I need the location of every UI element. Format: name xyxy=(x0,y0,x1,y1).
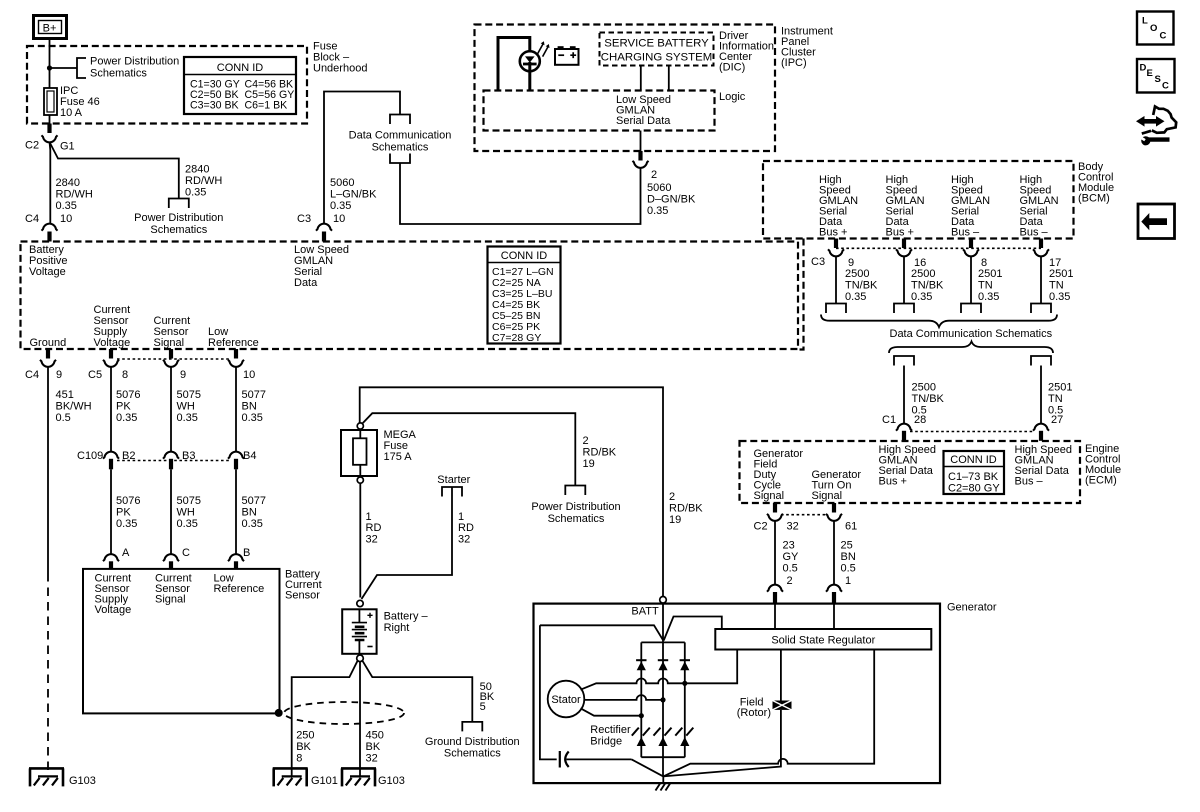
svg-text:BN: BN xyxy=(841,551,856,563)
svg-text:8: 8 xyxy=(122,369,128,381)
svg-text:Right: Right xyxy=(384,622,410,634)
wire 23 GY 0.5 xyxy=(774,520,776,585)
svg-text:L–GN/BK: L–GN/BK xyxy=(330,189,377,201)
fuse IPC Fuse 46 xyxy=(44,85,100,119)
svg-text:8: 8 xyxy=(296,753,302,765)
diode top col1 xyxy=(636,660,646,670)
svg-text:5075: 5075 xyxy=(177,495,201,507)
stator phase wire 1 (hops cols 1-2, joins col3, to regulator) xyxy=(581,650,738,690)
svg-text:RD: RD xyxy=(458,522,474,534)
label generator turn on signal xyxy=(812,469,862,502)
svg-text:5077: 5077 xyxy=(242,495,266,507)
svg-text:Voltage: Voltage xyxy=(95,604,132,616)
off-page pointer: power distribution schematics (right branch) xyxy=(169,199,189,209)
svg-text:32: 32 xyxy=(366,534,378,546)
wire 5077 BN 0.35 (upper) xyxy=(235,366,237,452)
svg-text:0.35: 0.35 xyxy=(978,291,999,303)
stator phase wire 2 (hops col1, joins col2) xyxy=(584,695,663,700)
svg-text:C2: C2 xyxy=(25,140,39,152)
label BCM high speed bus - (col 3) xyxy=(951,174,990,239)
wire field to ground node xyxy=(663,710,781,777)
svg-text:2: 2 xyxy=(583,435,589,447)
connector table CONN ID (battery positive harness) xyxy=(488,247,561,345)
connector BCM pin 9 xyxy=(834,239,838,249)
svg-text:TN/BK: TN/BK xyxy=(912,393,945,405)
svg-text:5076: 5076 xyxy=(116,495,140,507)
svg-text:5075: 5075 xyxy=(177,389,201,401)
svg-text:Reference: Reference xyxy=(214,583,265,595)
wire battery negative to G101 (250 BK) xyxy=(292,661,358,776)
node battery positive terminal xyxy=(357,600,363,606)
wire battery negative to G103 (450 BK) xyxy=(359,662,361,776)
off-page pointer col4 xyxy=(1031,304,1051,314)
svg-text:RD/BK: RD/BK xyxy=(669,503,703,515)
svg-text:2: 2 xyxy=(651,169,657,181)
svg-text:C6=1 BK: C6=1 BK xyxy=(245,100,288,112)
wire 5076 PK 0.35 (upper) xyxy=(110,366,112,452)
svg-text:Underhood: Underhood xyxy=(313,63,367,75)
component box: generator xyxy=(534,604,941,784)
wire 25 BN 0.5 xyxy=(833,520,835,585)
wire bridge bottom to ground node xyxy=(662,757,664,776)
svg-text:Logic: Logic xyxy=(719,91,746,103)
wire 1 RD 32 (starter branch) xyxy=(362,487,453,599)
svg-text:G103: G103 xyxy=(69,775,96,787)
svg-text:BATT: BATT xyxy=(631,606,659,618)
svg-text:TN: TN xyxy=(978,280,993,292)
svg-text:Reference: Reference xyxy=(208,337,259,349)
wire G1 branch right to power distribution xyxy=(50,143,179,199)
icon button back-arrow xyxy=(1138,204,1175,239)
ground G103 (left, 451 BK/WH) xyxy=(29,768,64,786)
svg-text:Data Communication Schematics: Data Communication Schematics xyxy=(890,328,1053,340)
svg-text:Bridge: Bridge xyxy=(590,736,622,748)
connector DIC pin 2 xyxy=(638,151,642,161)
label BCM high speed bus + (col 1) xyxy=(819,174,858,239)
off-page pointer 2500 to ECM xyxy=(894,356,914,366)
svg-text:BN: BN xyxy=(242,401,257,413)
fuse MEGA Fuse 175 A xyxy=(341,429,417,477)
svg-text:C3: C3 xyxy=(297,213,311,225)
svg-text:25: 25 xyxy=(841,540,853,552)
svg-text:TN/BK: TN/BK xyxy=(845,280,878,292)
wire 5060 D-GN/BK from pointer to DIC pin 2 xyxy=(400,163,641,224)
wire 1 RD 32 (mega fuse to battery) xyxy=(359,483,361,597)
wire 2500 TN/BK 0.5 xyxy=(903,366,905,425)
svg-text:(IPC): (IPC) xyxy=(781,57,807,69)
svg-text:B+: B+ xyxy=(43,23,57,35)
off-page pointer col1 xyxy=(826,304,846,314)
svg-text:Data Communication: Data Communication xyxy=(349,130,452,142)
svg-text:CONN ID: CONN ID xyxy=(501,250,548,262)
off-page pointer col3 xyxy=(961,304,981,314)
svg-text:Schematics: Schematics xyxy=(548,513,605,525)
module box: engine control module (ECM) xyxy=(740,441,1081,503)
battery telltale icon xyxy=(555,46,579,65)
svg-text:Schematics: Schematics xyxy=(150,224,207,236)
svg-text:19: 19 xyxy=(669,514,681,526)
svg-text:C: C xyxy=(1162,81,1169,92)
brace upper (gathers four buses) xyxy=(821,315,1057,328)
svg-text:C109: C109 xyxy=(77,450,103,462)
svg-text:10: 10 xyxy=(333,213,345,225)
wire 5060 L-GN/BK up and to data communication pointer xyxy=(324,92,400,225)
svg-text:(ECM): (ECM) xyxy=(1085,475,1117,487)
svg-text:RD/WH: RD/WH xyxy=(56,189,93,201)
svg-text:0.5: 0.5 xyxy=(783,563,798,575)
svg-text:0.35: 0.35 xyxy=(911,291,932,303)
svg-text:Signal: Signal xyxy=(812,490,843,502)
wire pin1 into regulator xyxy=(833,604,835,629)
connector C2 boundary dotted xyxy=(781,514,827,516)
svg-text:27: 27 xyxy=(1051,414,1063,426)
wire 5077 BN 0.35 (lower) xyxy=(235,469,237,554)
svg-text:Power Distribution: Power Distribution xyxy=(90,56,179,68)
svg-text:0.35: 0.35 xyxy=(242,518,263,530)
label generator field duty cycle signal xyxy=(754,448,804,502)
off-page pointer col2 xyxy=(894,304,914,314)
off-page pointer: ground distribution schematics xyxy=(462,722,482,732)
wire regulator to field xyxy=(780,650,782,701)
wire junction to fuse xyxy=(49,68,51,88)
capacitor (noise suppression) xyxy=(560,751,632,768)
connector C109 pin B4 xyxy=(228,452,244,459)
svg-text:L: L xyxy=(1142,16,1148,27)
wire capacitor to ground node xyxy=(632,759,664,776)
connector ECM C2 pin 61 xyxy=(832,503,836,513)
svg-text:C3=30 BK: C3=30 BK xyxy=(190,100,239,112)
wire pin2 into regulator xyxy=(774,604,776,629)
svg-text:2: 2 xyxy=(669,491,675,503)
svg-text:CHARGING SYSTEM: CHARGING SYSTEM xyxy=(601,52,712,64)
svg-text:9: 9 xyxy=(180,369,186,381)
svg-text:Battery –: Battery – xyxy=(384,611,429,623)
wire battery negative to ground distribution (50 BK) xyxy=(362,661,472,722)
wire logic to pin 2 xyxy=(640,131,642,152)
connector boundary dotted (top row) xyxy=(117,358,230,360)
svg-text:10: 10 xyxy=(60,213,72,225)
diode bottom col1 xyxy=(632,728,650,746)
svg-text:BK: BK xyxy=(296,741,311,753)
svg-text:Voltage: Voltage xyxy=(29,266,66,278)
connector C1 boundary dotted xyxy=(910,431,1033,433)
ground G101 (250 BK) xyxy=(273,768,308,786)
module box: logic xyxy=(484,91,715,131)
svg-text:A: A xyxy=(122,547,130,559)
svg-text:RD/WH: RD/WH xyxy=(185,175,222,187)
svg-text:Stator: Stator xyxy=(551,694,581,706)
icon button LOC xyxy=(1137,12,1174,45)
svg-text:D: D xyxy=(1140,63,1147,74)
svg-text:Data: Data xyxy=(294,277,318,289)
svg-text:E: E xyxy=(1147,68,1153,79)
svg-text:5060: 5060 xyxy=(330,177,354,189)
svg-text:175 A: 175 A xyxy=(384,451,413,463)
ground G103 (450 BK) xyxy=(341,768,376,786)
svg-text:0.35: 0.35 xyxy=(116,518,137,530)
connector pin 9 (signal) xyxy=(169,349,173,359)
wire 5076 PK 0.35 (lower) xyxy=(110,469,112,554)
wire regulator ground (right side, hops field wire) xyxy=(663,650,874,777)
icon vehicle data link (arrows, car, wrench) xyxy=(1136,107,1176,146)
generator case ground hatches xyxy=(656,784,671,791)
svg-text:Voltage: Voltage xyxy=(94,337,131,349)
wire message to logic (right) xyxy=(668,66,670,91)
svg-text:SERVICE BATTERY: SERVICE BATTERY xyxy=(604,38,709,50)
harness ellipse (sensor clamp around cables) xyxy=(284,702,404,724)
svg-text:Power Distribution: Power Distribution xyxy=(134,212,223,224)
module box: body control module (BCM) xyxy=(763,161,1074,239)
svg-text:D–GN/BK: D–GN/BK xyxy=(647,194,696,206)
node battery negative terminal xyxy=(357,655,364,662)
connector BCM pin 17 xyxy=(1039,239,1043,249)
svg-text:BK: BK xyxy=(366,741,381,753)
svg-text:WH: WH xyxy=(177,401,195,413)
svg-text:Bus –: Bus – xyxy=(951,227,980,239)
svg-text:C1–73 BK: C1–73 BK xyxy=(948,471,999,483)
module box: fuse block underhood xyxy=(27,46,307,124)
node sensor case splice xyxy=(275,709,283,717)
svg-text:C7=28 GY: C7=28 GY xyxy=(492,332,541,344)
battery (Battery - Right) xyxy=(342,609,428,654)
wire message to logic (left) xyxy=(640,66,642,91)
svg-text:32: 32 xyxy=(366,753,378,765)
svg-text:Bus –: Bus – xyxy=(1020,227,1049,239)
label high speed bus - xyxy=(1015,444,1073,488)
svg-text:Starter: Starter xyxy=(437,474,470,486)
node phase1-col3 xyxy=(682,681,687,686)
node phase3-col1 xyxy=(639,713,644,718)
label BCM high speed bus - (col 4) xyxy=(1020,174,1059,239)
svg-text:Bus +: Bus + xyxy=(879,476,907,488)
off-page pointer: data communication schematics (bottom) xyxy=(390,154,410,164)
wire BATT node left branch xyxy=(540,625,663,640)
svg-text:Bus +: Bus + xyxy=(886,227,914,239)
svg-text:S: S xyxy=(1155,74,1161,85)
svg-text:2501: 2501 xyxy=(1049,268,1073,280)
svg-text:(BCM): (BCM) xyxy=(1078,193,1110,205)
svg-text:Generator: Generator xyxy=(947,602,997,614)
svg-text:0.35: 0.35 xyxy=(185,187,206,199)
svg-text:9: 9 xyxy=(56,369,62,381)
svg-text:TN: TN xyxy=(1048,393,1063,405)
svg-text:BN: BN xyxy=(242,507,257,519)
svg-text:2500: 2500 xyxy=(912,382,936,394)
wire LED to logic box xyxy=(528,62,531,91)
svg-text:B3: B3 xyxy=(182,450,195,462)
connector C2 cup G1 xyxy=(42,135,58,142)
svg-text:0.35: 0.35 xyxy=(177,412,198,424)
svg-text:2500: 2500 xyxy=(845,268,869,280)
module box: service battery charging system message xyxy=(600,33,714,66)
connector C2 pin xyxy=(47,124,51,134)
node B+ xyxy=(34,16,67,39)
svg-text:RD: RD xyxy=(366,522,382,534)
svg-text:B4: B4 xyxy=(243,450,256,462)
node mega fuse top terminal xyxy=(357,423,363,429)
svg-text:0.35: 0.35 xyxy=(56,200,77,212)
diode bottom col3 xyxy=(675,728,693,746)
svg-text:G1: G1 xyxy=(60,141,75,153)
wire 2501 TN col3 xyxy=(970,256,972,304)
svg-text:2840: 2840 xyxy=(56,177,80,189)
svg-text:0.35: 0.35 xyxy=(242,412,263,424)
connector pin 10 (low ref) xyxy=(234,349,238,359)
svg-text:O: O xyxy=(1150,23,1157,34)
svg-text:250: 250 xyxy=(296,730,314,742)
wire 451 BK/WH 0.5 (solid then unshown run) xyxy=(47,366,49,573)
connector table CONN ID (ECM) xyxy=(944,451,1005,495)
svg-text:Sensor: Sensor xyxy=(285,590,320,602)
svg-text:GY: GY xyxy=(783,551,800,563)
connector C109 pin B3 xyxy=(163,452,179,459)
label BCM high speed bus + (col 2) xyxy=(886,174,925,239)
svg-text:19: 19 xyxy=(583,458,595,470)
svg-text:10 A: 10 A xyxy=(60,107,83,119)
diode top col3 xyxy=(680,660,690,670)
wire 2500 TN/BK col1 xyxy=(835,256,837,304)
wire branch to power distribution (2 RD/BK) xyxy=(363,413,576,485)
lamp/LED indicator xyxy=(520,41,550,71)
off-page pointer: data communication schematics (top) xyxy=(390,115,410,125)
svg-text:28: 28 xyxy=(914,414,926,426)
brace lower (splits to two buses) xyxy=(889,342,1053,354)
module box: instrument panel cluster (IPC) xyxy=(475,25,776,152)
svg-text:C: C xyxy=(1160,31,1167,42)
svg-text:Bus +: Bus + xyxy=(819,227,847,239)
regulator: solid state regulator xyxy=(715,629,931,650)
connector C5 pin 8 xyxy=(109,349,113,359)
module box: battery positive voltage (harness) xyxy=(21,242,799,350)
svg-text:C4: C4 xyxy=(25,213,39,225)
svg-text:Rectifier: Rectifier xyxy=(590,724,631,736)
svg-text:C2: C2 xyxy=(754,521,768,533)
svg-text:C: C xyxy=(182,547,190,559)
svg-text:Solid State Regulator: Solid State Regulator xyxy=(771,635,875,647)
wire G1 down to C4 xyxy=(49,142,52,224)
svg-text:5060: 5060 xyxy=(647,182,671,194)
svg-text:G103: G103 xyxy=(378,775,405,787)
bridge column 3 wire xyxy=(684,642,686,757)
off-page pointer: power distribution schematics xyxy=(565,486,585,496)
svg-text:B: B xyxy=(243,547,250,559)
svg-text:(Rotor): (Rotor) xyxy=(737,707,771,719)
svg-text:CONN ID: CONN ID xyxy=(950,454,997,466)
svg-text:G101: G101 xyxy=(311,775,338,787)
svg-text:0.35: 0.35 xyxy=(1049,291,1070,303)
node phase2-col2 xyxy=(660,697,665,702)
svg-text:CONN ID: CONN ID xyxy=(217,62,264,74)
off-page pointer 2501 to ECM xyxy=(1031,356,1051,366)
wire 5075 WH 0.35 (lower) xyxy=(170,469,172,554)
stator xyxy=(548,681,585,718)
rectifier bridge frame xyxy=(641,642,685,757)
bridge column 1 wire xyxy=(640,642,642,757)
svg-text:32: 32 xyxy=(458,534,470,546)
svg-text:TN/BK: TN/BK xyxy=(911,280,944,292)
label high speed bus + xyxy=(879,444,937,488)
svg-text:451: 451 xyxy=(56,389,74,401)
svg-text:Ground Distribution: Ground Distribution xyxy=(425,736,520,748)
wire junction to power distribution pointer xyxy=(50,67,78,69)
svg-text:2501: 2501 xyxy=(978,268,1002,280)
diode bottom col2 xyxy=(654,728,672,746)
svg-text:2501: 2501 xyxy=(1048,382,1072,394)
wire 5075 WH 0.35 (upper) xyxy=(170,366,172,452)
field (rotor) winding xyxy=(773,701,792,710)
svg-text:Power Distribution: Power Distribution xyxy=(531,501,620,513)
svg-text:1: 1 xyxy=(845,575,851,587)
connector ECM C2 pin 32 xyxy=(773,503,777,513)
svg-text:RD/BK: RD/BK xyxy=(583,447,617,459)
svg-text:0.35: 0.35 xyxy=(647,205,668,217)
svg-text:C4: C4 xyxy=(25,369,39,381)
connector table CONN ID (fuse block) xyxy=(184,57,296,114)
svg-text:2840: 2840 xyxy=(185,164,209,176)
svg-text:10: 10 xyxy=(243,369,255,381)
svg-text:Schematics: Schematics xyxy=(372,142,429,154)
svg-text:0.35: 0.35 xyxy=(330,200,351,212)
wire 2500 TN/BK col2 xyxy=(903,256,905,304)
svg-text:5076: 5076 xyxy=(116,389,140,401)
svg-text:Signal: Signal xyxy=(754,490,785,502)
connector C109 boundary dotted xyxy=(117,460,230,462)
svg-text:0.5: 0.5 xyxy=(841,563,856,575)
svg-text:Schematics: Schematics xyxy=(90,68,147,80)
svg-text:PK: PK xyxy=(116,507,131,519)
svg-text:(DIC): (DIC) xyxy=(719,62,745,74)
wire BATT into bridge xyxy=(662,603,664,642)
svg-text:PK: PK xyxy=(116,401,131,413)
connector BCM pin 8 xyxy=(969,239,973,249)
svg-text:0.35: 0.35 xyxy=(845,291,866,303)
stator phase wire 3 (joins col1) xyxy=(581,708,642,715)
svg-text:BK/WH: BK/WH xyxy=(56,401,92,413)
svg-text:C3: C3 xyxy=(811,256,825,268)
wire left side down to capacitor xyxy=(540,625,557,759)
svg-text:0.35: 0.35 xyxy=(177,518,198,530)
wire 2501 TN 0.5 xyxy=(1040,366,1042,425)
node mega fuse bottom terminal xyxy=(357,477,363,483)
svg-text:5: 5 xyxy=(480,701,486,713)
wire B+ to junction xyxy=(49,39,51,68)
off-page pointer: power distribution schematics xyxy=(77,58,86,78)
wire 2501 TN col4 xyxy=(1040,256,1042,304)
svg-text:C1: C1 xyxy=(882,414,896,426)
svg-text:32: 32 xyxy=(787,521,799,533)
wire indicator loop xyxy=(498,38,530,91)
wire ground stem xyxy=(662,776,664,783)
svg-text:23: 23 xyxy=(783,540,795,552)
svg-text:Bus –: Bus – xyxy=(1015,476,1044,488)
wire BATT node right branch to regulator xyxy=(664,617,722,641)
bridge column 2 wire xyxy=(662,642,664,757)
svg-text:Signal: Signal xyxy=(154,337,185,349)
icon button DESC xyxy=(1137,59,1175,93)
node BATT terminal xyxy=(660,597,667,604)
node junction G1 feed xyxy=(47,65,52,70)
svg-text:WH: WH xyxy=(177,507,195,519)
svg-text:Signal: Signal xyxy=(155,594,186,606)
diode top col2 xyxy=(658,660,668,670)
connector C3 boundary (BCM) dashed xyxy=(797,239,804,350)
svg-text:61: 61 xyxy=(845,521,857,533)
svg-text:TN: TN xyxy=(1049,280,1064,292)
wire fuse to connector C2 xyxy=(49,115,51,124)
svg-text:0.35: 0.35 xyxy=(116,412,137,424)
svg-text:Serial Data: Serial Data xyxy=(616,115,671,127)
svg-text:C5: C5 xyxy=(88,369,102,381)
